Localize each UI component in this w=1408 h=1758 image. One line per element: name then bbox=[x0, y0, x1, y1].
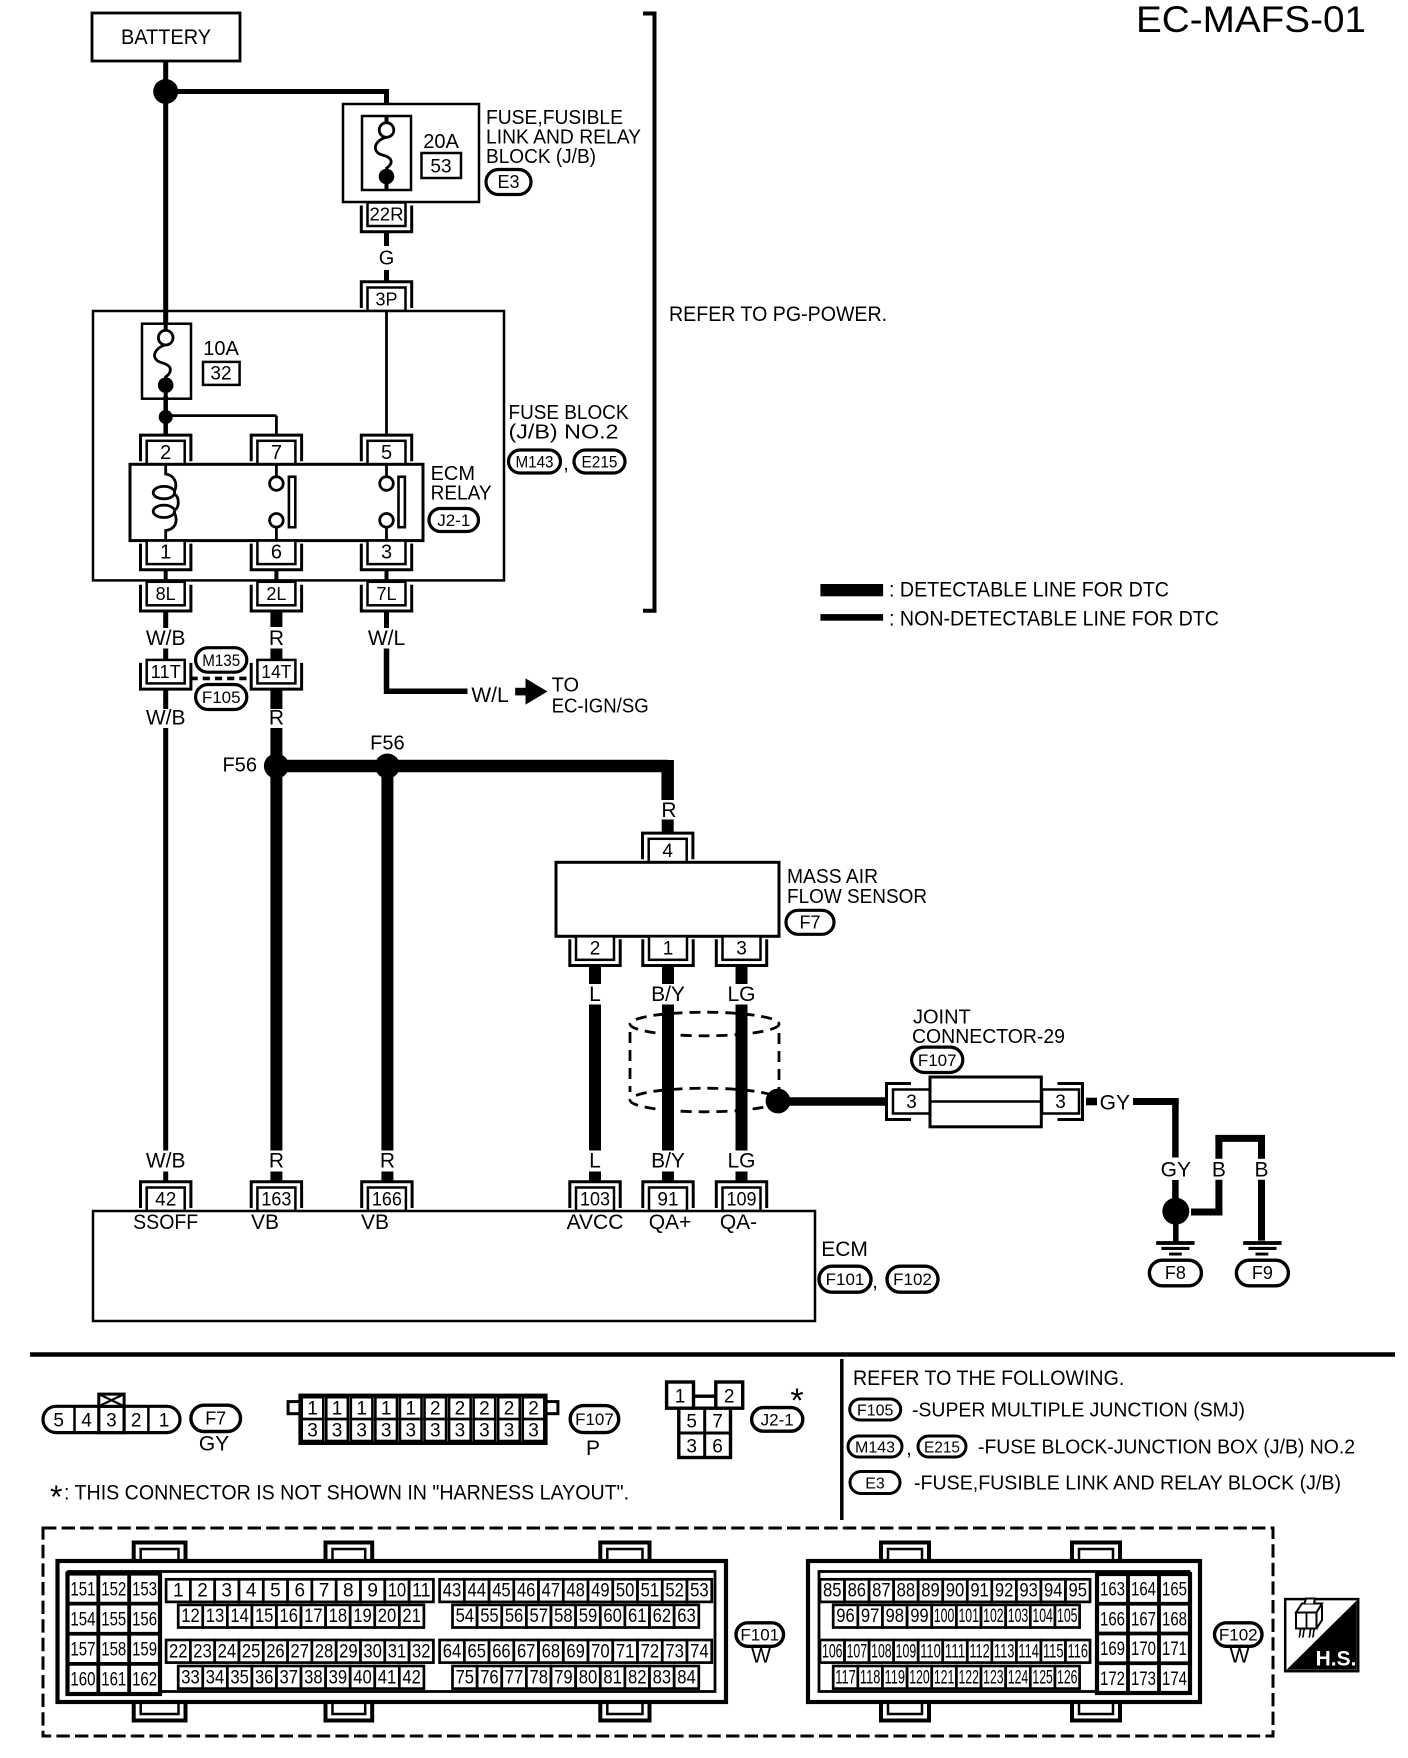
connector 8L bbox=[141, 582, 191, 611]
battery bbox=[92, 13, 240, 61]
svg-text:55: 55 bbox=[480, 1606, 499, 1627]
ground junction dot bbox=[1162, 1198, 1189, 1225]
svg-text:E215: E215 bbox=[582, 453, 618, 472]
label 20A 53 bbox=[422, 131, 462, 178]
svg-text:J2-1: J2-1 bbox=[437, 511, 470, 530]
svg-text:20: 20 bbox=[378, 1606, 397, 1627]
svg-text:: DETECTABLE LINE FOR DTC: : DETECTABLE LINE FOR DTC bbox=[889, 579, 1169, 602]
label 10A 32 bbox=[203, 338, 240, 385]
svg-text:97: 97 bbox=[861, 1606, 880, 1627]
svg-text:40: 40 bbox=[353, 1667, 372, 1688]
svg-text:124: 124 bbox=[1008, 1667, 1029, 1688]
wire R 14T to F56 bbox=[269, 690, 284, 767]
junction dot battery feed bbox=[153, 79, 178, 104]
svg-text:62: 62 bbox=[653, 1606, 672, 1627]
label JOINT CONNECTOR-29 bbox=[912, 1007, 1065, 1049]
svg-text:101: 101 bbox=[958, 1606, 979, 1627]
svg-text:173: 173 bbox=[1131, 1669, 1156, 1690]
relay contact b bbox=[380, 464, 405, 540]
svg-text:32: 32 bbox=[210, 364, 231, 385]
svg-text:71: 71 bbox=[616, 1641, 635, 1662]
svg-text:108: 108 bbox=[871, 1641, 892, 1662]
svg-text:*: * bbox=[50, 1479, 62, 1515]
svg-text:106: 106 bbox=[822, 1641, 843, 1662]
svg-text:5: 5 bbox=[686, 1412, 697, 1433]
svg-text:81: 81 bbox=[603, 1667, 622, 1688]
wire VB1 R to ECM bbox=[270, 766, 282, 1151]
svg-text:14: 14 bbox=[230, 1606, 249, 1627]
svg-text:GY: GY bbox=[199, 1433, 229, 1456]
svg-text:3: 3 bbox=[1055, 1092, 1066, 1113]
svg-text:39: 39 bbox=[329, 1667, 348, 1688]
svg-text:102: 102 bbox=[983, 1606, 1004, 1627]
relay pin 2 bbox=[141, 435, 191, 464]
svg-text:92: 92 bbox=[995, 1581, 1014, 1602]
F102 pin rows 106-126 bbox=[820, 1640, 1090, 1689]
svg-text:2: 2 bbox=[504, 1399, 515, 1420]
svg-text:17: 17 bbox=[304, 1606, 323, 1627]
wire B/Y to ECM bbox=[662, 1005, 674, 1151]
svg-text:REFER TO PG-POWER.: REFER TO PG-POWER. bbox=[669, 303, 887, 326]
svg-text:61: 61 bbox=[628, 1606, 647, 1627]
svg-text:59: 59 bbox=[579, 1606, 598, 1627]
svg-text:SSOFF: SSOFF bbox=[133, 1211, 198, 1234]
svg-text:2: 2 bbox=[160, 442, 171, 464]
svg-text:3: 3 bbox=[430, 1421, 441, 1442]
connector face F107 bbox=[288, 1395, 558, 1443]
wire L stub bbox=[589, 966, 601, 1006]
separator line bbox=[30, 1352, 1395, 1357]
label FUSE BLOCK (J/B) NO.2 bbox=[509, 402, 630, 444]
wire battery column into 10A fuse bbox=[163, 102, 168, 332]
svg-text:7: 7 bbox=[271, 442, 282, 464]
svg-text:103: 103 bbox=[1008, 1606, 1029, 1627]
F102 pin rows 85-105 bbox=[820, 1579, 1090, 1627]
svg-text:TO: TO bbox=[552, 675, 579, 697]
joint connector 29 body bbox=[887, 1077, 1083, 1127]
svg-text:F7: F7 bbox=[799, 912, 820, 932]
connector oval F105 smj bbox=[196, 685, 247, 710]
svg-text:49: 49 bbox=[591, 1581, 610, 1602]
svg-text:5: 5 bbox=[53, 1410, 64, 1431]
svg-text:100: 100 bbox=[934, 1606, 955, 1627]
connector oval E3 footnote bbox=[850, 1472, 900, 1494]
svg-text:69: 69 bbox=[566, 1641, 585, 1662]
connector oval F9 bbox=[1236, 1260, 1288, 1286]
svg-text:19: 19 bbox=[353, 1606, 372, 1627]
svg-text:79: 79 bbox=[554, 1667, 573, 1688]
svg-text:166: 166 bbox=[372, 1190, 402, 1211]
svg-text:W/B: W/B bbox=[146, 627, 186, 650]
svg-text:70: 70 bbox=[591, 1641, 610, 1662]
connector oval F7 footnote bbox=[191, 1405, 241, 1431]
wire dot to ground F8 bbox=[1173, 1220, 1179, 1242]
svg-text:103: 103 bbox=[580, 1190, 610, 1211]
svg-text:W/L: W/L bbox=[471, 684, 508, 707]
svg-text:34: 34 bbox=[206, 1667, 225, 1688]
svg-text:M135: M135 bbox=[202, 651, 240, 670]
svg-text:3: 3 bbox=[381, 1421, 392, 1442]
svg-text:15: 15 bbox=[255, 1606, 274, 1627]
svg-text:E215: E215 bbox=[924, 1440, 960, 1457]
svg-text:BATTERY: BATTERY bbox=[121, 26, 211, 49]
ECM pin 91 bbox=[643, 1182, 693, 1211]
wire B bridge bbox=[1191, 1135, 1265, 1216]
MAFS pin 3 bbox=[716, 936, 766, 965]
wire LG to ECM bbox=[736, 1005, 748, 1151]
wire W/B 8L to 11T bbox=[146, 611, 186, 660]
MAFS pin 4 bbox=[643, 833, 693, 862]
wire B to ground F9 bbox=[1258, 1180, 1265, 1241]
svg-text:FLOW SENSOR: FLOW SENSOR bbox=[787, 886, 927, 908]
svg-text:3: 3 bbox=[528, 1421, 539, 1442]
connector 3P bbox=[361, 282, 411, 311]
svg-text:3: 3 bbox=[906, 1092, 917, 1113]
shield cylinder bbox=[630, 1012, 779, 1112]
legend detectable line bbox=[820, 579, 1169, 602]
svg-text:4: 4 bbox=[662, 841, 673, 862]
svg-text:155: 155 bbox=[101, 1609, 126, 1630]
svg-text:44: 44 bbox=[467, 1581, 486, 1602]
legend non-detectable line bbox=[820, 608, 1219, 631]
svg-text:L: L bbox=[589, 983, 601, 1006]
svg-text:1: 1 bbox=[173, 1581, 184, 1602]
svg-text:33: 33 bbox=[181, 1667, 200, 1688]
svg-text:GY: GY bbox=[1161, 1159, 1191, 1182]
svg-text:W/L: W/L bbox=[368, 627, 405, 650]
svg-text:99: 99 bbox=[910, 1606, 929, 1627]
svg-text:3: 3 bbox=[332, 1421, 343, 1442]
connector face F101 housing bbox=[58, 1543, 727, 1721]
svg-text:B: B bbox=[1212, 1159, 1226, 1182]
connector face J2-1 bbox=[667, 1382, 743, 1458]
wire battery to junction bbox=[163, 61, 168, 80]
connector oval F101 footnote bbox=[736, 1623, 784, 1647]
connector oval F107 joint bbox=[912, 1047, 963, 1072]
svg-text:CONNECTOR-29: CONNECTOR-29 bbox=[912, 1026, 1065, 1048]
svg-text:,: , bbox=[872, 1271, 878, 1293]
svg-text:-SUPER MULTIPLE JUNCTION (SMJ): -SUPER MULTIPLE JUNCTION (SMJ) bbox=[912, 1400, 1245, 1422]
svg-text:154: 154 bbox=[70, 1609, 95, 1630]
label TO EC-IGN/SG bbox=[552, 675, 649, 718]
svg-text:7: 7 bbox=[319, 1581, 330, 1602]
svg-text:78: 78 bbox=[529, 1667, 548, 1688]
connector 7L bbox=[361, 582, 411, 611]
svg-text:22: 22 bbox=[169, 1641, 188, 1662]
wire W/B 11T to ECM bbox=[146, 690, 186, 1151]
svg-text:28: 28 bbox=[315, 1641, 334, 1662]
svg-text:F101: F101 bbox=[740, 1626, 779, 1645]
fusible link block E3 box bbox=[343, 104, 479, 202]
shield drain dot bbox=[766, 1089, 791, 1114]
svg-text:ECM: ECM bbox=[821, 1238, 868, 1261]
wire GY from joint connector bbox=[1086, 1092, 1179, 1158]
svg-text:20A: 20A bbox=[423, 131, 459, 153]
svg-text:122: 122 bbox=[958, 1667, 979, 1688]
svg-text:118: 118 bbox=[860, 1667, 881, 1688]
bracket refer to pg-power bbox=[643, 14, 655, 611]
svg-text:REFER TO THE FOLLOWING.: REFER TO THE FOLLOWING. bbox=[853, 1367, 1124, 1390]
svg-text:F105: F105 bbox=[857, 1403, 894, 1420]
svg-text:B/Y: B/Y bbox=[651, 983, 685, 1006]
svg-text:L: L bbox=[589, 1150, 601, 1173]
svg-text:77: 77 bbox=[505, 1667, 524, 1688]
label FUSE,FUSIBLE LINK AND RELAY BLOCK (J/B) bbox=[486, 107, 641, 168]
svg-text:10: 10 bbox=[388, 1581, 407, 1602]
svg-text:F102: F102 bbox=[893, 1270, 932, 1289]
svg-text:172: 172 bbox=[1100, 1669, 1125, 1690]
svg-text:W: W bbox=[1230, 1645, 1250, 1668]
junction dot F56 2 bbox=[375, 754, 400, 779]
svg-text:25: 25 bbox=[242, 1641, 261, 1662]
svg-text:6: 6 bbox=[271, 542, 282, 564]
svg-text:QA+: QA+ bbox=[649, 1211, 692, 1234]
svg-text:75: 75 bbox=[456, 1667, 475, 1688]
svg-text:R: R bbox=[269, 706, 284, 729]
svg-text:45: 45 bbox=[492, 1581, 511, 1602]
svg-text:M143: M143 bbox=[516, 453, 554, 472]
connector oval M135 bbox=[196, 648, 247, 673]
svg-text:3: 3 bbox=[405, 1421, 416, 1442]
svg-text:VB: VB bbox=[361, 1211, 389, 1234]
connector 11T bbox=[141, 660, 191, 689]
svg-text:1: 1 bbox=[307, 1399, 318, 1420]
svg-text:F101: F101 bbox=[826, 1270, 865, 1289]
svg-text:169: 169 bbox=[1100, 1639, 1125, 1660]
svg-text:16: 16 bbox=[280, 1606, 299, 1627]
svg-text:63: 63 bbox=[677, 1606, 696, 1627]
svg-text:117: 117 bbox=[835, 1667, 856, 1688]
wire relay pin 1 to block edge bbox=[164, 570, 168, 580]
svg-text:82: 82 bbox=[628, 1667, 647, 1688]
ECM box bbox=[93, 1211, 815, 1321]
F101 pin rows 64-84 bbox=[440, 1640, 712, 1689]
svg-text:H.S.: H.S. bbox=[1316, 1647, 1357, 1670]
svg-text:47: 47 bbox=[542, 1581, 561, 1602]
svg-text:156: 156 bbox=[132, 1609, 157, 1630]
wire L to ECM bbox=[589, 1005, 601, 1151]
svg-text:GY: GY bbox=[1100, 1092, 1130, 1115]
svg-text:157: 157 bbox=[70, 1640, 95, 1661]
svg-text:158: 158 bbox=[101, 1640, 126, 1661]
svg-text:F56: F56 bbox=[370, 733, 404, 755]
svg-text:112: 112 bbox=[969, 1641, 990, 1662]
ECM pin 109 bbox=[716, 1182, 766, 1211]
svg-text:2: 2 bbox=[479, 1399, 490, 1420]
svg-text:EC-IGN/SG: EC-IGN/SG bbox=[552, 696, 649, 718]
svg-text:B/Y: B/Y bbox=[651, 1150, 685, 1173]
fuse 10A 32 bbox=[142, 323, 191, 400]
svg-text:151: 151 bbox=[70, 1579, 95, 1600]
svg-text:2L: 2L bbox=[266, 584, 286, 604]
svg-text:LG: LG bbox=[727, 983, 755, 1006]
svg-text:57: 57 bbox=[529, 1606, 548, 1627]
svg-text:38: 38 bbox=[304, 1667, 323, 1688]
svg-text:R: R bbox=[269, 1150, 284, 1173]
svg-text:10A: 10A bbox=[203, 338, 239, 360]
svg-text:111: 111 bbox=[945, 1641, 966, 1662]
connector oval F102 ecm bbox=[887, 1266, 938, 1292]
svg-text:94: 94 bbox=[1044, 1581, 1063, 1602]
svg-text:168: 168 bbox=[1162, 1609, 1187, 1630]
svg-text:83: 83 bbox=[653, 1667, 672, 1688]
svg-text:3: 3 bbox=[686, 1436, 697, 1457]
svg-text:E3: E3 bbox=[497, 172, 519, 192]
svg-text:,: , bbox=[906, 1438, 912, 1460]
svg-text:5: 5 bbox=[270, 1581, 281, 1602]
junction dot F56 1 bbox=[264, 754, 289, 779]
wire F56 bus bbox=[276, 760, 667, 800]
svg-text:1: 1 bbox=[675, 1386, 686, 1407]
svg-text:54: 54 bbox=[456, 1606, 475, 1627]
svg-text:93: 93 bbox=[1019, 1581, 1038, 1602]
wire R to MAFS pin 4 bbox=[661, 799, 676, 833]
svg-text:171: 171 bbox=[1162, 1639, 1187, 1660]
F101 pin rows 1-21 bbox=[166, 1579, 433, 1627]
relay pin 7 bbox=[251, 435, 301, 464]
svg-text:121: 121 bbox=[934, 1667, 955, 1688]
svg-text:1: 1 bbox=[405, 1399, 416, 1420]
connector oval F101 ecm bbox=[819, 1266, 871, 1292]
connector oval F102 footnote bbox=[1215, 1623, 1263, 1647]
svg-text:: THIS CONNECTOR IS NOT SHOWN: : THIS CONNECTOR IS NOT SHOWN IN "HARNES… bbox=[64, 1482, 629, 1505]
svg-text:M143: M143 bbox=[855, 1440, 895, 1457]
svg-text:165: 165 bbox=[1162, 1580, 1187, 1601]
label MASS AIR FLOW SENSOR bbox=[787, 866, 927, 908]
svg-text:152: 152 bbox=[101, 1579, 126, 1600]
svg-text:72: 72 bbox=[641, 1641, 660, 1662]
svg-text:98: 98 bbox=[886, 1606, 905, 1627]
svg-text:P: P bbox=[586, 1437, 600, 1460]
svg-text:EC-MAFS-01: EC-MAFS-01 bbox=[1136, 0, 1366, 40]
svg-text:161: 161 bbox=[101, 1670, 126, 1691]
connector 22R bbox=[361, 203, 411, 232]
svg-text:1: 1 bbox=[381, 1399, 392, 1420]
connector face F7 bbox=[43, 1394, 180, 1433]
svg-text:53: 53 bbox=[690, 1581, 709, 1602]
svg-text:41: 41 bbox=[378, 1667, 397, 1688]
svg-text:AVCC: AVCC bbox=[567, 1211, 624, 1234]
fusible link 20A 53 bbox=[362, 115, 411, 191]
svg-text:B: B bbox=[1254, 1159, 1268, 1182]
junction dot fuse block bbox=[159, 410, 173, 424]
ECM pin 166 bbox=[362, 1182, 412, 1211]
svg-text:48: 48 bbox=[566, 1581, 585, 1602]
svg-text:3: 3 bbox=[504, 1421, 515, 1442]
svg-text:91: 91 bbox=[657, 1190, 678, 1211]
svg-text:109: 109 bbox=[896, 1641, 917, 1662]
svg-text:LG: LG bbox=[727, 1150, 755, 1173]
svg-text:3: 3 bbox=[222, 1581, 233, 1602]
harness layout dashed box bbox=[43, 1528, 1273, 1736]
connector oval F8 bbox=[1149, 1260, 1201, 1286]
svg-text:159: 159 bbox=[132, 1640, 157, 1661]
divider line bbox=[840, 1359, 844, 1520]
ECM pin 163 bbox=[251, 1182, 301, 1211]
relay pin 3 bbox=[361, 541, 411, 570]
svg-text:73: 73 bbox=[665, 1641, 684, 1662]
relay pin 5 bbox=[361, 435, 411, 464]
svg-text:170: 170 bbox=[1131, 1639, 1156, 1660]
svg-text:E3: E3 bbox=[865, 1476, 885, 1493]
label ECM RELAY bbox=[431, 463, 492, 505]
svg-text:4: 4 bbox=[246, 1581, 257, 1602]
F101 pin rows 43-63 bbox=[440, 1579, 712, 1627]
connector oval F7 mafs bbox=[786, 910, 834, 934]
F101 pin grid 151-162 bbox=[68, 1574, 161, 1695]
svg-text:12: 12 bbox=[181, 1606, 200, 1627]
svg-text:3: 3 bbox=[307, 1421, 318, 1442]
svg-text:F102: F102 bbox=[1219, 1626, 1258, 1645]
svg-text:3: 3 bbox=[106, 1410, 117, 1431]
svg-text:53: 53 bbox=[430, 157, 451, 178]
svg-text:6: 6 bbox=[712, 1436, 723, 1457]
svg-text:64: 64 bbox=[443, 1641, 462, 1662]
ECM pin 42 bbox=[141, 1182, 191, 1211]
svg-text:163: 163 bbox=[261, 1190, 291, 1211]
svg-text:J2-1: J2-1 bbox=[761, 1410, 794, 1429]
wire label row above ECM bbox=[146, 1150, 756, 1173]
connector oval M143 footnote bbox=[848, 1436, 902, 1457]
svg-text:W/B: W/B bbox=[146, 1150, 186, 1173]
svg-text:167: 167 bbox=[1131, 1609, 1156, 1630]
svg-text:46: 46 bbox=[517, 1581, 536, 1602]
svg-text:13: 13 bbox=[206, 1606, 225, 1627]
svg-text:42: 42 bbox=[155, 1190, 176, 1211]
connector face F102 housing bbox=[808, 1543, 1200, 1721]
svg-text:1: 1 bbox=[663, 938, 674, 959]
svg-text:166: 166 bbox=[1100, 1609, 1125, 1630]
wire LG stub bbox=[727, 966, 755, 1006]
svg-text:42: 42 bbox=[402, 1667, 421, 1688]
svg-text:3: 3 bbox=[736, 938, 747, 959]
svg-text:85: 85 bbox=[823, 1581, 842, 1602]
svg-text:-FUSE,FUSIBLE LINK AND RELAY B: -FUSE,FUSIBLE LINK AND RELAY BLOCK (J/B) bbox=[914, 1473, 1341, 1495]
svg-text:R: R bbox=[269, 627, 284, 650]
svg-text:6: 6 bbox=[294, 1581, 305, 1602]
svg-text:50: 50 bbox=[616, 1581, 635, 1602]
svg-text:68: 68 bbox=[542, 1641, 561, 1662]
wire GY to ground dot bbox=[1172, 1180, 1179, 1200]
relay pin 6 bbox=[251, 541, 301, 570]
ECM pin 103 bbox=[570, 1182, 620, 1211]
svg-text:4: 4 bbox=[81, 1410, 92, 1431]
svg-text:96: 96 bbox=[836, 1606, 855, 1627]
svg-text:2: 2 bbox=[430, 1399, 441, 1420]
wire G bbox=[379, 233, 395, 281]
F102 pin grid 163-174 bbox=[1097, 1574, 1190, 1693]
wire relay pin 3 to block edge bbox=[385, 570, 389, 580]
wire B/Y stub bbox=[651, 966, 685, 1006]
svg-text:76: 76 bbox=[480, 1667, 499, 1688]
svg-text:2: 2 bbox=[197, 1581, 208, 1602]
connector oval J2-1 relay bbox=[429, 509, 479, 532]
svg-text:-FUSE BLOCK-JUNCTION BOX (J/B): -FUSE BLOCK-JUNCTION BOX (J/B) NO.2 bbox=[978, 1437, 1355, 1459]
svg-text:113: 113 bbox=[994, 1641, 1015, 1662]
wire junction to relay pin 7 bbox=[166, 416, 277, 434]
footnote this connector is not shown bbox=[50, 1479, 629, 1515]
svg-text:: NON-DETECTABLE LINE FOR DTC: : NON-DETECTABLE LINE FOR DTC bbox=[889, 608, 1219, 631]
svg-text:14T: 14T bbox=[261, 662, 291, 682]
svg-text:115: 115 bbox=[1043, 1641, 1064, 1662]
connector oval E215 footnote bbox=[918, 1436, 966, 1457]
connector 2L bbox=[251, 582, 301, 611]
svg-text:5: 5 bbox=[381, 442, 392, 464]
svg-text:90: 90 bbox=[946, 1581, 965, 1602]
svg-text:51: 51 bbox=[641, 1581, 660, 1602]
svg-text:R: R bbox=[661, 799, 676, 822]
wire relay pin 6 to block edge bbox=[274, 570, 278, 580]
